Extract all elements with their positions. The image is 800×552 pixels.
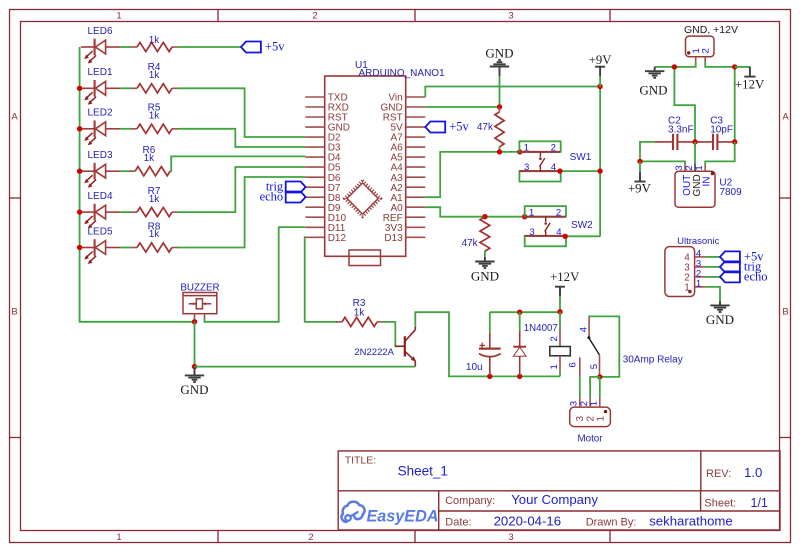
svg-text:2: 2 bbox=[551, 143, 556, 154]
EasyEDA logo bbox=[342, 502, 365, 522]
capacitor C3 10pF bbox=[695, 134, 735, 150]
wire pin1 to GND bbox=[705, 287, 720, 301]
svg-text:1k: 1k bbox=[149, 70, 161, 81]
svg-text:echo: echo bbox=[744, 270, 768, 284]
title block texts bbox=[345, 454, 737, 528]
junction relay pin5/motor bbox=[597, 374, 602, 379]
ground (above 47k) bbox=[490, 60, 509, 76]
svg-text:1/1: 1/1 bbox=[751, 496, 768, 510]
net flag trig (D7) bbox=[286, 182, 306, 193]
junction GND node bbox=[192, 364, 197, 369]
wire LED1 to resistor bbox=[120, 87, 132, 89]
wire LED3 to resistor bbox=[120, 170, 132, 172]
svg-text:3: 3 bbox=[508, 11, 513, 22]
junction 47k2 top bbox=[482, 214, 487, 219]
U1 pin name labels bbox=[328, 93, 403, 244]
svg-text:1k: 1k bbox=[144, 153, 156, 164]
junction SW2 pin4 bbox=[563, 234, 568, 239]
junction +12V/coil bbox=[557, 309, 562, 314]
svg-text:1: 1 bbox=[589, 401, 600, 406]
buzzer BUZZER bbox=[183, 293, 217, 322]
svg-text:sekharathome: sekharathome bbox=[649, 514, 733, 529]
svg-text:5: 5 bbox=[589, 364, 600, 369]
wire +9V rail down to SW2 bbox=[599, 171, 601, 236]
wire buzzer pin2 to D11 bbox=[205, 227, 306, 322]
svg-text:3: 3 bbox=[529, 227, 534, 238]
resistor R 1k (LED6) bbox=[131, 42, 178, 51]
svg-text:Ultrasonic: Ultrasonic bbox=[677, 236, 719, 247]
junction GND/47k top bbox=[497, 104, 502, 109]
junction +9V rail/SW1 bbox=[597, 168, 602, 173]
wire R4 to D2 bbox=[178, 88, 305, 137]
svg-text:1: 1 bbox=[524, 143, 529, 154]
title block bbox=[338, 451, 780, 530]
svg-text:D13: D13 bbox=[384, 233, 403, 244]
wire SW2 pin4 to +9V rail bbox=[565, 235, 600, 237]
svg-text:D12: D12 bbox=[328, 233, 347, 244]
svg-text:GND: GND bbox=[471, 268, 499, 283]
power +12V (top right) bbox=[749, 65, 751, 68]
svg-text:47k: 47k bbox=[477, 122, 494, 133]
switch SW1 bbox=[519, 141, 560, 181]
wire relay pin4 loop bbox=[589, 316, 619, 377]
junction SW2 pin1 bbox=[522, 214, 527, 219]
svg-text:2: 2 bbox=[556, 208, 561, 219]
svg-text:2: 2 bbox=[701, 48, 712, 53]
svg-text:1: 1 bbox=[116, 532, 121, 543]
svg-text:1: 1 bbox=[694, 165, 705, 170]
svg-text:BUZZER: BUZZER bbox=[180, 282, 219, 293]
svg-text:echo: echo bbox=[260, 190, 284, 204]
svg-text:Motor: Motor bbox=[577, 433, 603, 444]
junction diode bottom bbox=[517, 374, 522, 379]
svg-text:Sheet:: Sheet: bbox=[704, 497, 736, 509]
wire 1k to +5v flag bbox=[178, 46, 241, 48]
wire +12V to U2 IN bbox=[705, 142, 735, 165]
LED LED4 bbox=[81, 204, 120, 229]
svg-text:REV:: REV: bbox=[706, 468, 731, 480]
svg-text:1.0: 1.0 bbox=[744, 465, 762, 480]
wire A0 to SW2 pin1 bbox=[425, 207, 524, 217]
wire pin1 to GND bbox=[655, 62, 696, 67]
svg-text:1k: 1k bbox=[354, 307, 366, 318]
U1 usb connector rectangle bbox=[349, 250, 381, 266]
ground (buzzer/emitter) bbox=[185, 367, 204, 382]
svg-text:GND, +12V: GND, +12V bbox=[684, 24, 738, 36]
resistor R8 1k (LED5) bbox=[131, 243, 178, 252]
wire collector to relay coil rail bbox=[415, 312, 490, 376]
transistor Q1 2N2222A bbox=[395, 327, 416, 367]
resistor 47k (SW1 pulldown) bbox=[495, 107, 504, 152]
power +9V (top) bbox=[599, 76, 601, 87]
junction +9V node bbox=[637, 159, 642, 164]
svg-text:1: 1 bbox=[696, 278, 701, 289]
wire R5 to D3 bbox=[178, 129, 305, 147]
svg-text:GND: GND bbox=[485, 45, 513, 60]
junction 47k/SW1 wire bbox=[497, 149, 502, 154]
wire R3 to Q1 base bbox=[383, 322, 397, 346]
wire to GND node bbox=[194, 322, 196, 367]
wire GND to 47k bbox=[499, 76, 501, 107]
junction SW1 pin4 bbox=[557, 168, 562, 173]
wire C2 left to +9V node bbox=[640, 142, 655, 162]
svg-text:+9V: +9V bbox=[589, 53, 613, 67]
wire U1 GND pin to 47k top bbox=[425, 106, 499, 108]
svg-text:+12V: +12V bbox=[735, 78, 765, 92]
LED LED6 bbox=[81, 39, 120, 64]
connector Ultrasonic bbox=[665, 247, 705, 297]
wire LED2 to resistor bbox=[120, 128, 132, 130]
svg-text:LED5: LED5 bbox=[88, 226, 113, 237]
wire +12V down to C3 bbox=[734, 67, 736, 142]
U1 right pin stubs Vin GND RST 5V A7-A0 REF 3V3 D13 bbox=[406, 97, 426, 237]
wire GND to U2 pin2 bbox=[694, 142, 696, 164]
svg-text:EasyEDA: EasyEDA bbox=[367, 507, 439, 525]
junction rail/LED1 bbox=[77, 86, 82, 91]
regulator U2 7809 bbox=[675, 164, 715, 208]
junction C3/+12V bbox=[732, 139, 737, 144]
wire LED4 to resistor bbox=[120, 211, 132, 213]
svg-text:1: 1 bbox=[529, 208, 534, 219]
svg-text:LED1: LED1 bbox=[88, 67, 113, 78]
svg-text:Your Company: Your Company bbox=[511, 492, 598, 507]
wire to motor pin2 bbox=[590, 377, 600, 397]
svg-text:3.3nF: 3.3nF bbox=[668, 124, 694, 135]
svg-text:1: 1 bbox=[116, 11, 121, 22]
svg-text:GND: GND bbox=[180, 382, 208, 397]
U1 left pin stubs TXD RXD RST GND D2-D12 bbox=[305, 97, 324, 237]
ground (connector) bbox=[645, 67, 664, 78]
LED LED1 bbox=[81, 80, 120, 105]
wire pin2 to +12V bbox=[705, 62, 735, 67]
svg-text:2020-04-16: 2020-04-16 bbox=[494, 513, 561, 528]
LED LED5 bbox=[81, 239, 120, 264]
net flag echo (ultrasonic) bbox=[720, 271, 740, 282]
net flag +5v (LED6) bbox=[241, 42, 261, 53]
LED LED3 bbox=[81, 163, 120, 188]
capacitor C1 10u electrolytic bbox=[479, 333, 501, 377]
svg-text:30Amp Relay: 30Amp Relay bbox=[623, 355, 683, 366]
junction diode top bbox=[517, 310, 522, 315]
wire to coil pin2 bbox=[559, 312, 561, 328]
svg-text:3: 3 bbox=[524, 162, 529, 173]
wire A1 to SW1 pin1 bbox=[425, 152, 519, 197]
net flag trig (ultrasonic) bbox=[720, 261, 740, 272]
wire coil rail bottom bbox=[490, 375, 560, 377]
svg-text:Drawn By:: Drawn By: bbox=[586, 516, 637, 528]
LED LED2 bbox=[81, 121, 120, 146]
svg-text:Sheet_1: Sheet_1 bbox=[398, 463, 448, 478]
ground (ultrasonic) bbox=[710, 301, 729, 312]
svg-text:B: B bbox=[782, 307, 788, 318]
svg-text:+5v: +5v bbox=[449, 120, 469, 134]
net flag +5v (5V pin) bbox=[425, 122, 445, 133]
resistor R5 1k (LED2) bbox=[131, 124, 178, 133]
net flag echo (D8) bbox=[286, 192, 306, 203]
wire pin4 to +5v flag bbox=[705, 256, 720, 258]
svg-text:1: 1 bbox=[549, 364, 560, 369]
svg-text:+9V: +9V bbox=[628, 181, 652, 195]
svg-text:B: B bbox=[11, 307, 17, 318]
svg-text:2N2222A: 2N2222A bbox=[354, 347, 394, 358]
junction +9V stem/Vin bbox=[597, 84, 602, 89]
svg-text:LED6: LED6 bbox=[88, 26, 113, 37]
wire GND net down to caps bbox=[674, 67, 695, 142]
power +12V (relay) bbox=[559, 296, 561, 312]
svg-text:1k: 1k bbox=[149, 229, 161, 240]
relay K1 switch contact bbox=[580, 317, 600, 377]
resistor R6 1k (LED3) bbox=[129, 167, 172, 176]
wire pin2 to echo flag bbox=[705, 276, 720, 278]
svg-text:6: 6 bbox=[568, 362, 579, 367]
svg-text:47k: 47k bbox=[462, 238, 479, 249]
wire to motor pin1 bbox=[599, 377, 601, 397]
resistor R4 1k (LED1) bbox=[131, 84, 178, 93]
switch SW2 bbox=[525, 206, 566, 246]
svg-text:4: 4 bbox=[551, 162, 557, 173]
U1 chip diamond glyph bbox=[345, 180, 381, 216]
svg-text:4: 4 bbox=[556, 227, 562, 238]
wire D12 to R3 bbox=[305, 237, 338, 322]
svg-text:1: 1 bbox=[684, 282, 690, 293]
diode D1 1N4007 bbox=[513, 331, 526, 377]
svg-text:1k: 1k bbox=[149, 111, 161, 122]
svg-text:Date:: Date: bbox=[445, 516, 471, 528]
junction rail/LED4 bbox=[77, 209, 82, 214]
resistor 47k (SW2 pulldown) bbox=[480, 217, 490, 251]
svg-text:GND: GND bbox=[639, 82, 667, 97]
svg-text:LED4: LED4 bbox=[88, 191, 113, 202]
svg-text:+12V: +12V bbox=[550, 270, 580, 284]
wire emitter to GND node bbox=[195, 366, 416, 368]
resistor R3 1k bbox=[336, 317, 383, 326]
wire +12V rail bbox=[490, 311, 560, 313]
wire 47k bottom bbox=[499, 147, 501, 152]
svg-text:3: 3 bbox=[508, 532, 513, 543]
svg-text:2: 2 bbox=[549, 336, 560, 341]
junction rail/LED2 bbox=[77, 126, 82, 131]
svg-text:10pF: 10pF bbox=[710, 124, 733, 135]
junction C2/C3/GND bbox=[692, 139, 697, 144]
svg-text:1k: 1k bbox=[149, 35, 161, 46]
wire +9V rail down to SW1 bbox=[599, 87, 601, 172]
svg-text:7809: 7809 bbox=[719, 187, 742, 198]
wire LED5 to resistor bbox=[120, 247, 132, 249]
capacitor C2 3.3nF bbox=[655, 134, 695, 150]
power +9V (regulator) bbox=[639, 162, 641, 172]
svg-text:LED2: LED2 bbox=[88, 108, 113, 119]
svg-text:3: 3 bbox=[575, 416, 586, 422]
junction 10u bottom bbox=[487, 374, 492, 379]
junction SW1 pin1 bbox=[517, 149, 522, 154]
svg-text:1N4007: 1N4007 bbox=[524, 323, 558, 334]
wire +9V to U2 OUT bbox=[640, 161, 685, 164]
svg-text:TITLE:: TITLE: bbox=[345, 454, 377, 466]
svg-text:4: 4 bbox=[579, 326, 590, 332]
wire R6 to D4 bbox=[171, 156, 305, 171]
svg-text:SW1: SW1 bbox=[570, 152, 592, 163]
wire LED6 to resistor bbox=[120, 46, 132, 48]
svg-text:10u: 10u bbox=[466, 362, 483, 373]
svg-text:SW2: SW2 bbox=[571, 220, 593, 231]
connector Motor bbox=[570, 397, 611, 426]
IC U1 ARDUINO_NANO1 body bbox=[325, 76, 406, 256]
wire Vin to +9V rail bbox=[425, 87, 600, 98]
ground (below 47k2) bbox=[475, 257, 494, 268]
svg-text:2: 2 bbox=[312, 11, 317, 22]
junction GND net bbox=[672, 64, 677, 69]
svg-text:A: A bbox=[782, 112, 789, 123]
wire SW1 pin4 to +9V rail bbox=[560, 170, 600, 172]
wire pin3 to trig flag bbox=[705, 266, 720, 268]
svg-text:GND: GND bbox=[706, 312, 734, 327]
junction rail/LED5 bbox=[77, 245, 82, 250]
svg-text:A: A bbox=[11, 112, 18, 123]
junction +12V net bbox=[732, 64, 737, 69]
svg-text:1: 1 bbox=[595, 416, 606, 422]
wire relay pin6 to motor pin3 bbox=[579, 376, 581, 397]
svg-text:ARDUINO_NANO1: ARDUINO_NANO1 bbox=[359, 68, 446, 79]
junction rail/LED3 bbox=[77, 169, 82, 174]
svg-text:Company:: Company: bbox=[445, 495, 495, 507]
resistor R7 1k (LED4) bbox=[131, 208, 178, 217]
svg-text:1k: 1k bbox=[149, 194, 161, 205]
junction buzzer pin1/rail bbox=[192, 319, 197, 324]
svg-text:LED3: LED3 bbox=[88, 150, 113, 161]
wire R8 to D6 bbox=[178, 177, 305, 248]
wire LED cathode rail to buzzer/GND node bbox=[80, 47, 195, 322]
wire R7 to D5 bbox=[178, 167, 305, 212]
svg-text:IN: IN bbox=[701, 177, 712, 187]
relay K1 coil bbox=[550, 328, 571, 371]
svg-text:2: 2 bbox=[308, 532, 313, 543]
connector P1 GND,+12V bbox=[686, 36, 715, 62]
net flag +5v (ultrasonic) bbox=[720, 251, 740, 262]
svg-text:+5v: +5v bbox=[265, 40, 285, 54]
svg-text:3: 3 bbox=[569, 401, 580, 406]
